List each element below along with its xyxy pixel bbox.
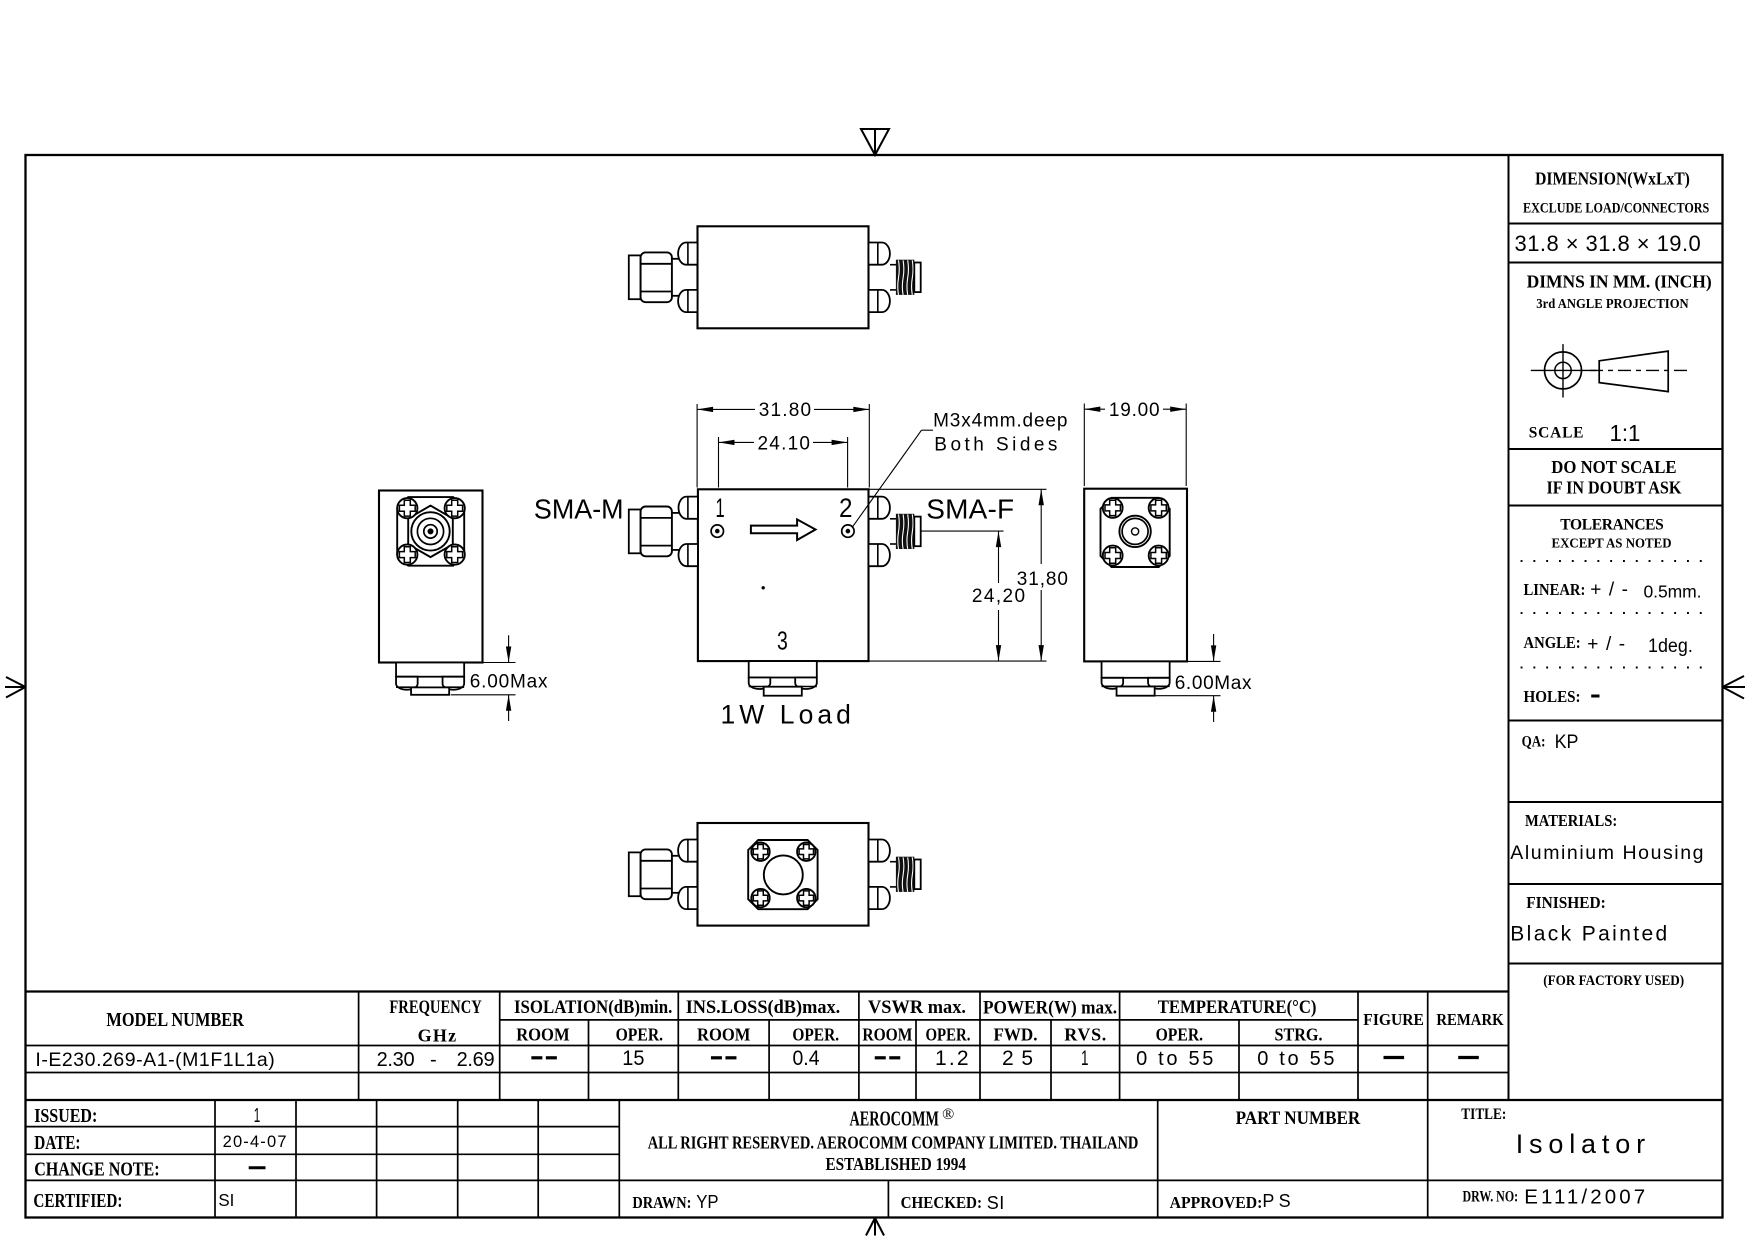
right view dimension 19.00 (1083, 404, 1085, 487)
svg-text:Black Painted: Black Painted (1510, 923, 1667, 946)
svg-text:1.2: 1.2 (935, 1047, 969, 1070)
svg-text:INS.LOSS(dB)max.: INS.LOSS(dB)max. (686, 997, 841, 1018)
svg-text:STRG.: STRG. (1275, 1025, 1323, 1045)
SMA male connector pin (629, 852, 641, 896)
svg-text:ROOM: ROOM (697, 1025, 750, 1045)
right side view body outline (1084, 489, 1187, 662)
SMA male connector pin (629, 255, 641, 299)
SMA female connector flange tabs (869, 840, 890, 862)
left centering mark (6, 677, 26, 687)
svg-text:DIMNS IN MM. (INCH): DIMNS IN MM. (INCH) (1527, 272, 1712, 292)
svg-text:TEMPERATURE(°C): TEMPERATURE(°C) (1158, 997, 1317, 1018)
top view body outline (698, 226, 869, 328)
svg-text:CERTIFIED:: CERTIFIED: (33, 1190, 122, 1212)
load termination tabs (749, 678, 771, 690)
svg-text:FINISHED:: FINISHED: (1526, 893, 1606, 912)
svg-text:LINEAR:: LINEAR: (1524, 580, 1586, 599)
info panel left border (1508, 155, 1510, 1100)
right view 6.00Max dimension (1187, 660, 1221, 662)
left view 6.00Max dimension (483, 662, 516, 664)
svg-text:ANGLE:: ANGLE: (1524, 633, 1581, 652)
forward direction block arrow (751, 519, 816, 540)
svg-text:GHz: GHz (418, 1025, 457, 1045)
top centering mark (861, 129, 889, 155)
SMA male connector neck (672, 258, 679, 260)
svg-text:+/-: +/- (1590, 580, 1628, 601)
screw with phillips cross (445, 498, 465, 518)
svg-text:E111/2007: E111/2007 (1524, 1186, 1645, 1209)
svg-text:1: 1 (254, 1105, 261, 1127)
figure value (1384, 1056, 1405, 1059)
svg-text:+/-: +/- (1587, 634, 1625, 655)
remark value (1458, 1056, 1479, 1059)
load termination flange (1102, 661, 1170, 677)
svg-text:EXCEPT AS NOTED: EXCEPT AS NOTED (1552, 536, 1672, 551)
SMA male connector hex nut (641, 252, 672, 302)
info panel row dividers (1509, 223, 1723, 225)
svg-text:20-4-07: 20-4-07 (223, 1133, 287, 1151)
spec table column lines (358, 992, 360, 1101)
bottom view load cavity circle (764, 855, 803, 894)
screw with phillips cross (1103, 498, 1123, 518)
svg-text:-: - (430, 1049, 437, 1071)
svg-text:ROOM: ROOM (862, 1025, 912, 1045)
load termination stub (411, 687, 449, 694)
svg-text:ALL RIGHT RESERVED. AEROCOM: ALL RIGHT RESERVED. AEROCOMM COMPANY LIM… (648, 1133, 1139, 1153)
port 2 hole (842, 525, 854, 537)
svg-text:HOLES:: HOLES: (1524, 687, 1581, 706)
svg-text:SI: SI (218, 1190, 234, 1210)
svg-text:Isolator: Isolator (1516, 1129, 1645, 1159)
svg-text:OPER.: OPER. (616, 1025, 664, 1045)
svg-text:SMA-M: SMA-M (534, 494, 624, 525)
svg-text:24,20: 24,20 (972, 586, 1025, 607)
svg-text:1:1: 1:1 (1610, 420, 1641, 446)
svg-text:2.30: 2.30 (377, 1049, 415, 1071)
SMA female barrel tip (914, 517, 920, 547)
SMA male connector neck (672, 855, 679, 857)
SMA female connector neck (890, 861, 896, 863)
right centering mark (1723, 676, 1745, 687)
left view connector mounting plate (397, 497, 464, 566)
svg-text:ROOM: ROOM (516, 1025, 569, 1045)
screw with phillips cross (397, 498, 417, 518)
svg-text:®: ® (942, 1106, 954, 1123)
title block horizontal lines (26, 1099, 1723, 1101)
svg-text:OPER.: OPER. (926, 1025, 971, 1045)
front view dimension 24.20 vertical (921, 530, 1004, 532)
svg-text:APPROVED:: APPROVED: (1170, 1193, 1263, 1212)
svg-text:0.4: 0.4 (793, 1047, 820, 1070)
svg-text:DRAWN:: DRAWN: (632, 1193, 691, 1212)
SMA female barrel tip (914, 263, 920, 293)
right view connector circles (1119, 516, 1150, 547)
SMA male connector flange tabs (679, 497, 698, 519)
svg-text:SI: SI (987, 1193, 1005, 1213)
svg-text:KP: KP (1555, 732, 1579, 753)
svg-text:M3x4mm.deep: M3x4mm.deep (933, 411, 1067, 432)
SMA female connector flange tabs (869, 497, 890, 519)
SMA male connector hex nut (641, 849, 672, 899)
svg-text:DATE:: DATE: (34, 1132, 80, 1154)
SMA female threaded barrel (896, 260, 914, 295)
screw with phillips cross (445, 545, 465, 565)
svg-text:TITLE:: TITLE: (1461, 1106, 1506, 1123)
bottom view body outline (698, 823, 869, 926)
svg-text:19.00: 19.00 (1109, 400, 1160, 421)
left view SMA male hex nut outline (408, 506, 453, 557)
svg-text:TOLERANCES: TOLERANCES (1560, 517, 1664, 534)
spec table outer lines (26, 990, 1509, 992)
vswr values (875, 1056, 886, 1059)
SMA female threaded barrel (896, 857, 914, 892)
load termination flange (396, 663, 464, 677)
svg-text:SCALE: SCALE (1529, 425, 1584, 442)
spec table sub column lines (588, 1020, 590, 1100)
svg-text:15: 15 (622, 1047, 644, 1070)
svg-text:ISOLATION(dB)min.: ISOLATION(dB)min. (514, 997, 672, 1018)
svg-text:MATERIALS:: MATERIALS: (1525, 811, 1617, 830)
svg-text:FWD.: FWD. (994, 1025, 1038, 1045)
svg-text:FREQUENCY: FREQUENCY (389, 997, 482, 1018)
svg-text:IF IN DOUBT ASK: IF IN DOUBT ASK (1547, 478, 1682, 498)
SMA male connector neck (672, 512, 679, 514)
svg-text:1W Load: 1W Load (721, 699, 851, 729)
svg-text:1: 1 (716, 493, 725, 523)
svg-text:Both Sides: Both Sides (934, 434, 1057, 455)
screw with phillips cross (1103, 546, 1123, 566)
svg-text:CHECKED:: CHECKED: (901, 1193, 982, 1212)
svg-text:6.00Max: 6.00Max (470, 672, 548, 693)
bottom centering mark (866, 1218, 875, 1236)
svg-text:31.8 × 31.8 × 19.0: 31.8 × 31.8 × 19.0 (1515, 231, 1701, 256)
svg-text:POWER(W) max.: POWER(W) max. (983, 998, 1117, 1019)
svg-text:1: 1 (1081, 1047, 1089, 1070)
svg-text:3: 3 (777, 625, 788, 655)
isolation values (531, 1056, 542, 1059)
svg-text:24.10: 24.10 (758, 433, 811, 454)
third angle projection symbol (1545, 352, 1582, 389)
svg-text:DRW. NO:: DRW. NO: (1463, 1189, 1519, 1206)
svg-text:VSWR max.: VSWR max. (868, 997, 966, 1018)
SMA female connector neck (890, 264, 896, 266)
leader line M3x4mm tapped holes (852, 430, 921, 527)
SMA female connector neck (890, 518, 896, 520)
insertion loss values (711, 1056, 722, 1059)
right view connector mounting plate (1101, 498, 1170, 567)
load termination stub (764, 687, 802, 696)
bottom view load plate (748, 840, 817, 909)
screw with phillips cross (751, 889, 769, 907)
svg-text:RVS.: RVS. (1064, 1025, 1106, 1045)
SMA male connector hex nut (641, 507, 672, 557)
svg-text:ISSUED:: ISSUED: (34, 1105, 97, 1127)
svg-text:QA:: QA: (1522, 734, 1546, 751)
load termination tabs (396, 677, 418, 690)
center witness dot (762, 587, 765, 590)
screw with phillips cross (1149, 546, 1169, 566)
svg-text:2: 2 (839, 493, 853, 523)
front view dimension 31.80 horizontal (696, 404, 698, 488)
screw with phillips cross (797, 889, 815, 907)
screw with phillips cross (751, 843, 769, 861)
front view body outline (698, 489, 869, 661)
screw with phillips cross (397, 545, 417, 565)
svg-text:DIMENSION(WxLxT): DIMENSION(WxLxT) (1535, 169, 1690, 190)
svg-text:PART NUMBER: PART NUMBER (1236, 1108, 1361, 1129)
load termination stub (1117, 687, 1155, 696)
front view dimension 31.80 vertical (869, 488, 1047, 490)
svg-text:Aluminium Housing: Aluminium Housing (1510, 842, 1703, 864)
port 1 hole (711, 525, 723, 537)
svg-text:OPER.: OPER. (1156, 1025, 1204, 1045)
load termination flange (749, 661, 817, 677)
svg-text:REMARK: REMARK (1436, 1010, 1503, 1029)
svg-text:SMA-F: SMA-F (926, 494, 1014, 525)
screw with phillips cross (1149, 498, 1169, 518)
svg-text:AEROCOMM: AEROCOMM (850, 1106, 940, 1130)
SMA female connector flange tabs (869, 243, 890, 265)
svg-text:YP: YP (696, 1192, 718, 1212)
svg-text:EXCLUDE LOAD/CONNECTORS: EXCLUDE LOAD/CONNECTORS (1523, 201, 1709, 217)
svg-text:3rd ANGLE PROJECTION: 3rd ANGLE PROJECTION (1536, 296, 1689, 311)
front view dimension 24.10 horizontal (718, 437, 720, 488)
SMA female threaded barrel (896, 514, 914, 549)
svg-text:31.80: 31.80 (759, 400, 811, 421)
svg-text:I-E230.269-A1-(M1F1L1a): I-E230.269-A1-(M1F1L1a) (35, 1049, 274, 1071)
svg-text:1deg.: 1deg. (1648, 636, 1693, 657)
svg-text:2.69: 2.69 (457, 1049, 495, 1071)
load termination tabs (1102, 678, 1124, 689)
svg-text:DO NOT SCALE: DO NOT SCALE (1551, 457, 1676, 477)
svg-text:6.00Max: 6.00Max (1175, 673, 1252, 694)
svg-text:(FOR FACTORY USED): (FOR FACTORY USED) (1543, 973, 1684, 989)
left view connector circles (411, 512, 449, 550)
svg-text:0.5mm.: 0.5mm. (1644, 582, 1702, 602)
left side view body outline (379, 491, 483, 663)
screw with phillips cross (797, 843, 815, 861)
tolerance dotted separators (1521, 560, 1711, 562)
SMA male connector pin (629, 510, 641, 554)
svg-text:FIGURE: FIGURE (1363, 1010, 1424, 1029)
svg-text:OPER.: OPER. (792, 1025, 839, 1045)
svg-text:ESTABLISHED 1994: ESTABLISHED 1994 (826, 1154, 967, 1174)
title block vertical lines (214, 1100, 216, 1218)
svg-text:CHANGE NOTE:: CHANGE NOTE: (34, 1159, 159, 1181)
SMA male connector flange tabs (678, 243, 697, 265)
svg-text:MODEL NUMBER: MODEL NUMBER (106, 1009, 244, 1031)
SMA female barrel tip (914, 860, 920, 890)
SMA male connector flange tabs (678, 840, 697, 862)
